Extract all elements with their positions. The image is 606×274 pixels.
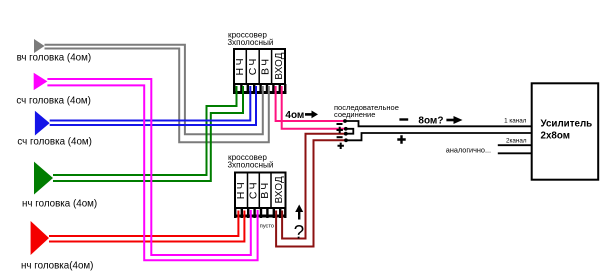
svg-text:сч головка (4ом): сч головка (4ом) (17, 137, 92, 148)
svg-text:?: ? (294, 222, 305, 243)
svg-text:аналогично...: аналогично... (446, 146, 491, 155)
svg-text:нч головка(4ом): нч головка(4ом) (21, 261, 93, 272)
svg-text:1 канал: 1 канал (504, 118, 527, 125)
svg-text:СЧ: СЧ (247, 180, 259, 199)
svg-text:2х8ом: 2х8ом (541, 131, 570, 142)
svg-text:ВХОД: ВХОД (274, 176, 285, 203)
svg-text:ВЧ: ВЧ (259, 180, 271, 199)
svg-text:Усилитель: Усилитель (541, 119, 593, 130)
svg-text:НЧ: НЧ (235, 180, 247, 200)
svg-text:3хполосный: 3хполосный (228, 38, 274, 47)
svg-text:ВЧ: ВЧ (259, 56, 271, 75)
svg-text:нч головка (4ом): нч головка (4ом) (22, 199, 97, 210)
svg-text:2канал: 2канал (506, 138, 527, 145)
svg-text:СЧ: СЧ (247, 56, 259, 75)
svg-text:3хполосный: 3хполосный (228, 161, 274, 170)
svg-text:НЧ: НЧ (234, 56, 246, 76)
svg-text:вч головка (4ом): вч головка (4ом) (17, 53, 92, 64)
svg-text:ВХОД: ВХОД (274, 52, 285, 79)
svg-text:8ом?: 8ом? (418, 115, 443, 126)
svg-text:пусто: пусто (260, 223, 274, 229)
svg-text:соединение: соединение (334, 110, 375, 119)
svg-text:сч головка (4ом): сч головка (4ом) (16, 96, 91, 107)
svg-text:4ом: 4ом (285, 110, 304, 121)
